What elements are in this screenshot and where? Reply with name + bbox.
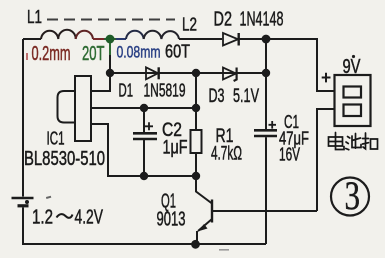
- svg-text:L2: L2: [182, 15, 197, 35]
- svg-text:D1: D1: [119, 81, 134, 101]
- svg-text:1N4148: 1N4148: [240, 9, 284, 31]
- svg-text:20T: 20T: [82, 43, 105, 65]
- svg-text:D3: D3: [209, 86, 225, 107]
- svg-text:1N5819: 1N5819: [144, 81, 186, 101]
- svg-text:D2: D2: [214, 9, 233, 31]
- svg-text:L1: L1: [27, 7, 42, 27]
- svg-text:1.2: 1.2: [32, 207, 53, 229]
- svg-text:5.1V: 5.1V: [233, 86, 259, 107]
- svg-text:9013: 9013: [157, 209, 186, 231]
- svg-text:0.08mm: 0.08mm: [117, 43, 161, 62]
- svg-text:1μF: 1μF: [163, 138, 188, 159]
- svg-text:IC1: IC1: [47, 129, 65, 149]
- svg-text:4.2V: 4.2V: [75, 207, 104, 229]
- svg-text:0.2mm: 0.2mm: [32, 43, 71, 65]
- svg-text:4.7kΩ: 4.7kΩ: [211, 144, 242, 165]
- svg-text:16V: 16V: [279, 145, 300, 165]
- svg-text:3: 3: [345, 173, 361, 218]
- svg-text:9V: 9V: [343, 56, 361, 78]
- svg-text:60T: 60T: [165, 42, 190, 62]
- svg-text:BL8530-510: BL8530-510: [24, 148, 105, 170]
